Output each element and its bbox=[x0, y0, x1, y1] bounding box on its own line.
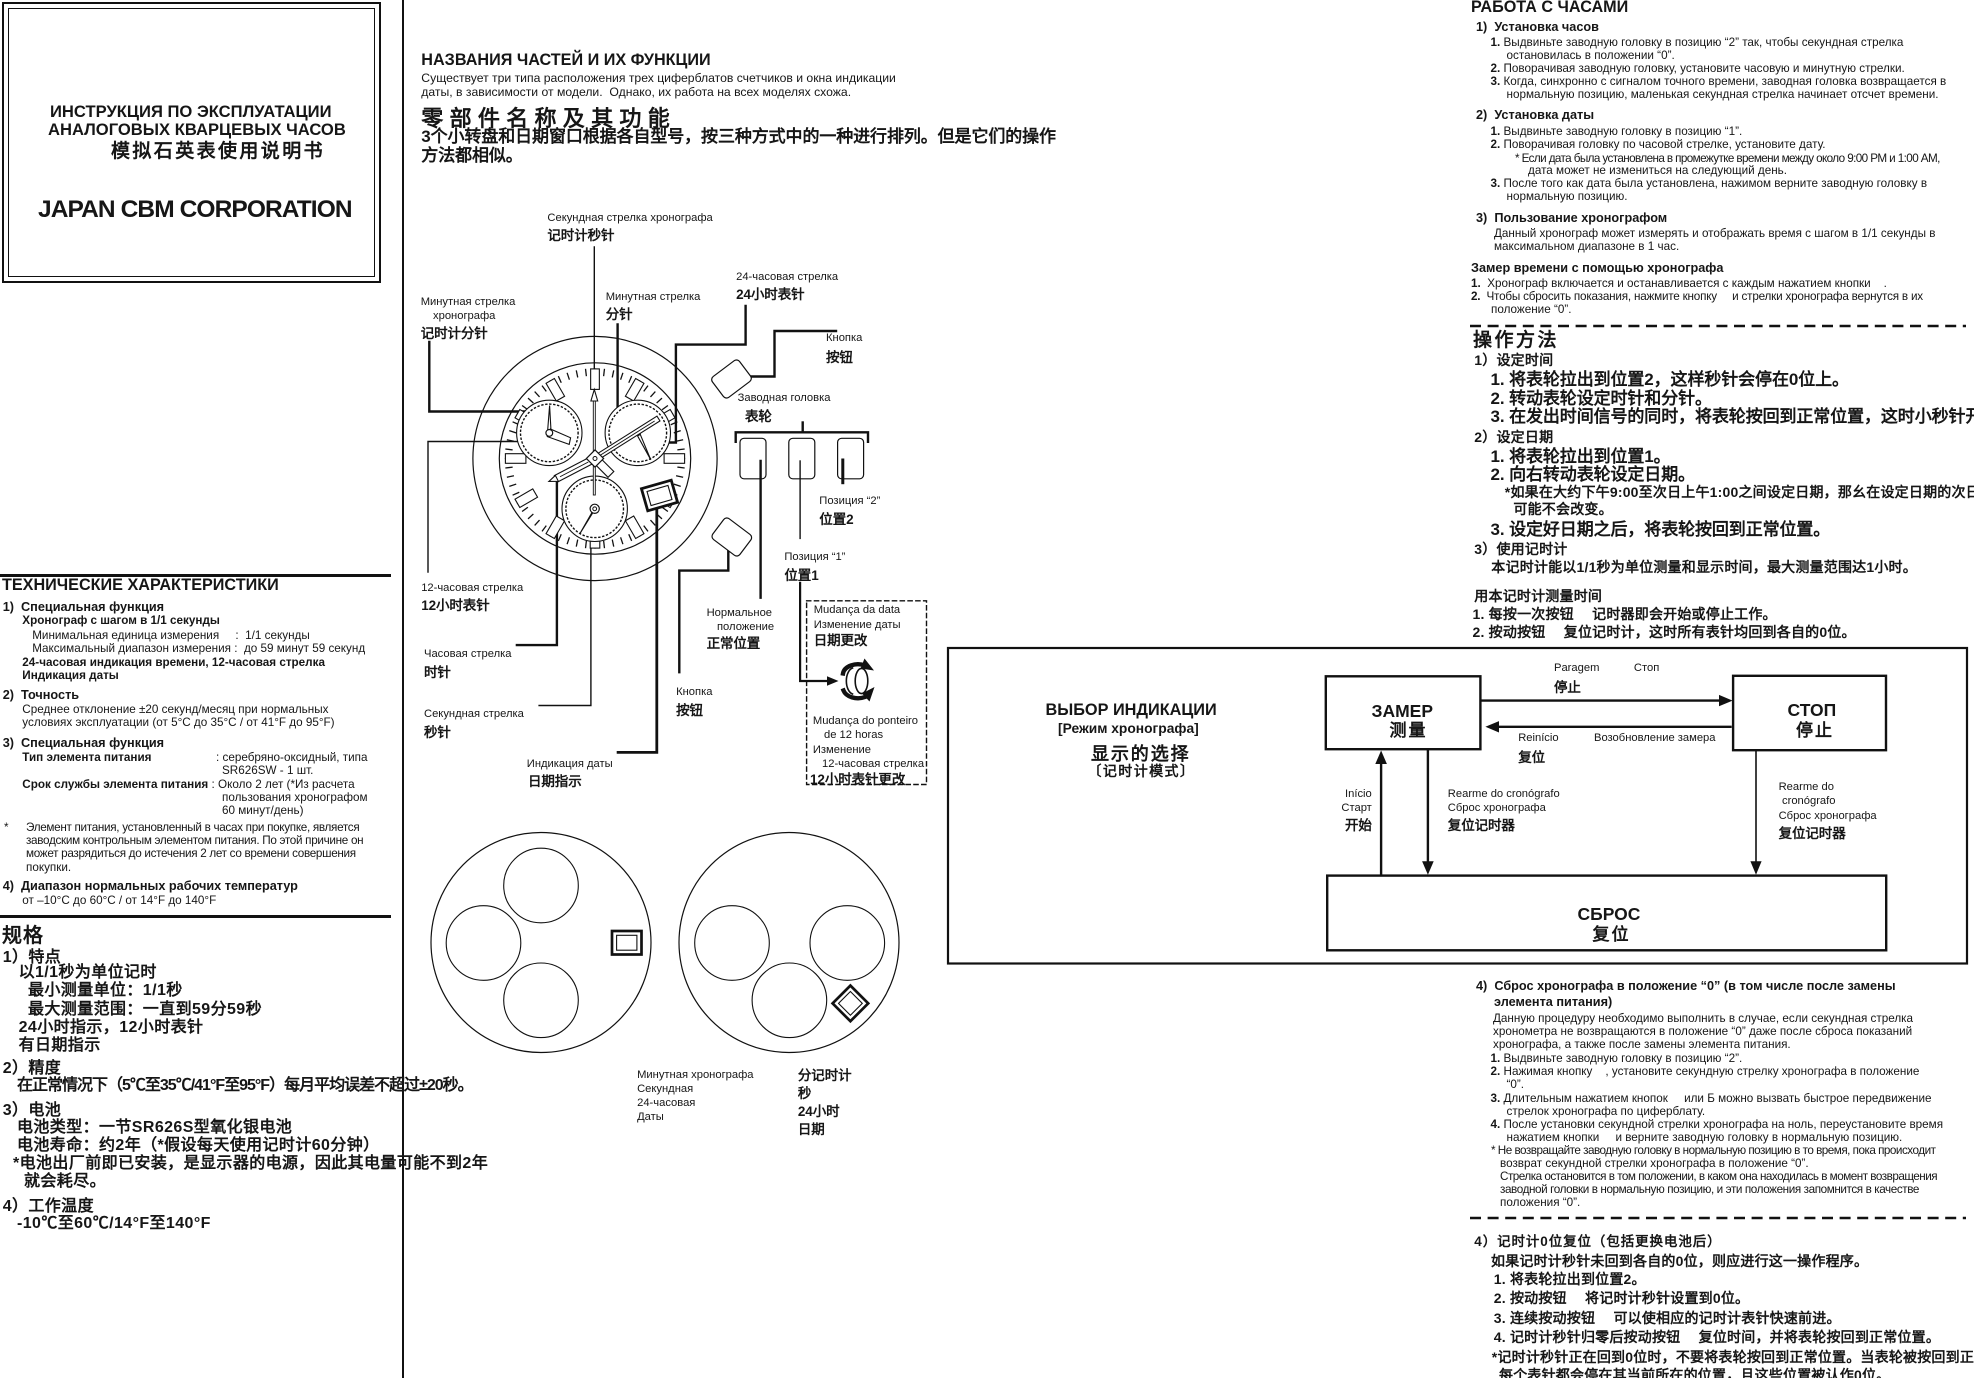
title box inner border bbox=[8, 8, 375, 277]
callout line: small second hand bbox=[539, 521, 591, 706]
flow chart outer frame bbox=[948, 648, 1967, 964]
crown position 2 bbox=[789, 438, 815, 479]
watch outer case circle bbox=[473, 336, 717, 580]
dial layout circle A (left big circle) bbox=[431, 833, 651, 1053]
callout line: minute hand bbox=[616, 325, 618, 439]
vertical column divider bbox=[402, 0, 404, 1378]
dashed box (date change / 12-hour hand change) bbox=[807, 601, 927, 785]
STOP box bbox=[1733, 676, 1886, 750]
dial layout circle B (right big circle) bbox=[679, 833, 899, 1053]
callout line: chronograph minute hand bbox=[429, 342, 550, 412]
minute tick ring bbox=[506, 369, 685, 548]
chronograph mode flow chart bbox=[940, 640, 1974, 980]
bottom button (pusher) bbox=[710, 516, 753, 557]
diamond date window of circle B bbox=[833, 986, 869, 1022]
watch dial circle bbox=[499, 363, 690, 554]
crown position 1 bbox=[838, 438, 864, 479]
RESET box bbox=[1327, 876, 1886, 951]
arrow: measure to stop bbox=[1480, 699, 1723, 701]
minute hand (center, pointing upper right) bbox=[594, 416, 660, 461]
24-hour hand (small) bbox=[636, 432, 651, 460]
arrow: stop to measure bbox=[1495, 726, 1732, 728]
top button (pusher) bbox=[710, 358, 753, 399]
callout line: chronograph second hand bbox=[593, 247, 595, 392]
title box outer border bbox=[2, 2, 381, 283]
center hub ornament bbox=[586, 450, 603, 467]
chronograph second hand (center, pointing up) bbox=[591, 390, 598, 496]
right subdial (24-hour counter) bbox=[605, 400, 670, 465]
hour markers bbox=[505, 369, 684, 548]
crown position 2 line bbox=[799, 461, 801, 538]
arrow: stop to reset bbox=[1755, 750, 1757, 865]
title text bbox=[50, 104, 332, 121]
rotation icon: top arrow bbox=[843, 664, 865, 673]
crown normal position stem line bbox=[759, 461, 761, 598]
rotation icon: crown side view bbox=[843, 659, 875, 702]
callout line: top button bbox=[739, 331, 836, 377]
crown bracket center tick bbox=[802, 423, 804, 433]
left column: rule above ТЕХНИЧЕСКИЕ ХАРАКТЕРИСТИКИ bbox=[0, 574, 391, 577]
callout line: date indication bbox=[618, 497, 657, 752]
dashed separator 2 bbox=[1469, 1214, 1967, 1222]
rotation icon: bottom arrow bbox=[844, 691, 866, 699]
date window on dial bbox=[641, 480, 677, 511]
left column: rule above 规格 bbox=[0, 915, 391, 918]
callout line: bottom button bbox=[679, 545, 728, 672]
date window of circle A bbox=[612, 931, 642, 955]
arrow: measure to reset bbox=[1427, 749, 1429, 865]
arrow: reset to measure (start) bbox=[1380, 760, 1382, 875]
MEASURE box bbox=[1326, 676, 1481, 749]
callout line: hour hand bbox=[517, 479, 557, 646]
callout line: 12-hour hand bbox=[428, 442, 570, 573]
12-hour hand (small) bbox=[547, 429, 570, 444]
bottom subdial (small second) bbox=[562, 476, 627, 541]
left subdial (chronograph minute counter) bbox=[517, 400, 582, 465]
crown bracket bbox=[736, 432, 868, 442]
callout line: 24-hour hand bbox=[645, 306, 746, 443]
crown position 1 stem bbox=[841, 460, 844, 483]
dashed separator 1 bbox=[1469, 322, 1967, 330]
position 1 arrow into dashed box bbox=[800, 583, 829, 681]
minute hand counterweight bbox=[596, 459, 614, 477]
watch movement diagram bbox=[405, 195, 970, 1135]
hour hand (center, pointing lower left) bbox=[548, 457, 593, 485]
chronograph minute hand (small) bbox=[548, 406, 552, 433]
crown normal position bbox=[740, 438, 766, 479]
small second hand bbox=[580, 508, 596, 534]
